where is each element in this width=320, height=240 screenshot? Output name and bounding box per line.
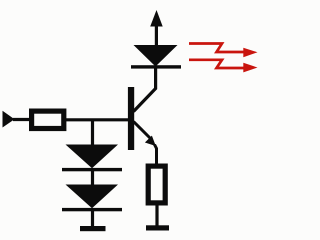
wire VCC to LED anode: [155, 26, 158, 47]
wire D3 to ground: [91, 211, 94, 227]
wire R1 to base node: [66, 118, 129, 121]
input terminal arrow: [3, 111, 15, 128]
wire D2 to D3: [91, 171, 94, 186]
light ray arrow 2: [189, 60, 258, 73]
wire LED cathode to collector: [134, 68, 156, 112]
diode D3 (clamp diode bottom): [62, 185, 122, 212]
supply arrow (VCC, pointing up): [150, 10, 163, 27]
ground (left): [80, 226, 106, 231]
light ray arrow 1: [189, 44, 258, 58]
transistor Q1 emitter lead with arrow: [134, 122, 157, 166]
ground (right): [146, 225, 169, 230]
resistor R2 (emitter resistor): [148, 166, 165, 203]
LED D1 (emitting diode): [131, 45, 181, 69]
diode D2 (clamp diode top): [62, 145, 122, 172]
transistor Q1 base bar: [128, 87, 134, 150]
node base junction drop wire: [91, 120, 94, 146]
wire R2 to ground: [155, 204, 158, 226]
wire input to R1: [13, 118, 31, 121]
resistor R1 (base resistor): [32, 111, 64, 128]
